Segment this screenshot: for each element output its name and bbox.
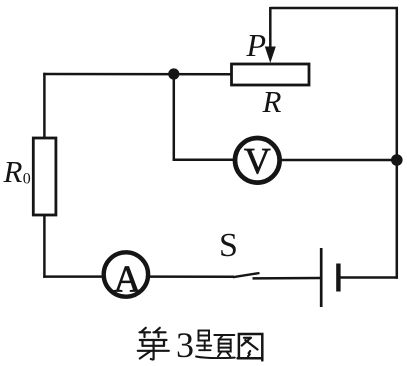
- wire voltmeter right: [281, 159, 399, 162]
- wire middle vertical (junction to voltmeter branch): [173, 74, 176, 161]
- wire top-right horizontal: [270, 7, 398, 10]
- wire slider stem: [269, 7, 272, 49]
- svg-text:3: 3: [176, 325, 194, 365]
- resistor R0 body: [33, 138, 56, 215]
- svg-text:A: A: [114, 258, 142, 300]
- wire right vertical rail: [396, 8, 399, 279]
- wire bottom-left horizontal: [43, 275, 102, 278]
- caption character 题: [196, 331, 235, 359]
- svg-text:P: P: [246, 27, 267, 63]
- wire battery to right rail: [341, 276, 399, 279]
- wire switch to battery: [253, 277, 321, 280]
- svg-text:0: 0: [23, 171, 31, 188]
- wire left vertical lower: [43, 215, 46, 278]
- wire top-left horizontal: [43, 73, 232, 76]
- svg-text:R: R: [262, 84, 282, 119]
- svg-text:R: R: [3, 154, 23, 189]
- wire left vertical upper: [43, 73, 46, 139]
- svg-text:S: S: [219, 227, 238, 264]
- voltmeter V: [235, 138, 280, 183]
- wire voltmeter left: [173, 159, 235, 162]
- node junction top (dot): [168, 68, 179, 79]
- node junction right (dot): [391, 154, 403, 166]
- svg-text:V: V: [244, 142, 271, 183]
- caption character 图: [238, 334, 263, 360]
- battery positive plate (long): [320, 248, 323, 307]
- battery negative plate (short thick): [336, 264, 340, 292]
- caption character 第: [138, 328, 169, 360]
- slider arrowhead P: [265, 47, 276, 64]
- wire ammeter to switch: [149, 275, 235, 278]
- switch S blade: [233, 273, 260, 277]
- ammeter A: [104, 252, 148, 296]
- rheostat R body: [232, 64, 310, 85]
